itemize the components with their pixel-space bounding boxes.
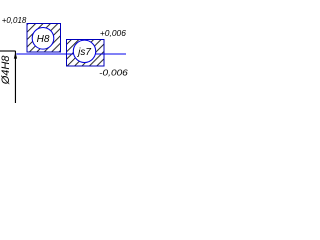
svg-text:-0,006: -0,006 — [99, 68, 128, 78]
svg-text:Ø4H8: Ø4H8 — [0, 55, 12, 86]
svg-text:H8: H8 — [37, 34, 50, 45]
svg-text:+0,018: +0,018 — [2, 15, 27, 25]
tolerance fit diagram H8/js7 — [0, 0, 130, 129]
node js7 ellipse — [73, 40, 95, 62]
wire: dimension line vertical — [14, 51, 16, 103]
svg-text:js7: js7 — [76, 47, 91, 58]
svg-text:+0,006: +0,006 — [100, 28, 126, 38]
tolerance box H8 — [27, 24, 61, 53]
wire: zero line (blue) — [16, 53, 126, 55]
node H8 ellipse — [32, 28, 54, 50]
wire: nominal size line (black, left) — [0, 50, 16, 52]
dimension arrowhead — [14, 52, 17, 59]
tolerance box js7 — [67, 40, 105, 67]
